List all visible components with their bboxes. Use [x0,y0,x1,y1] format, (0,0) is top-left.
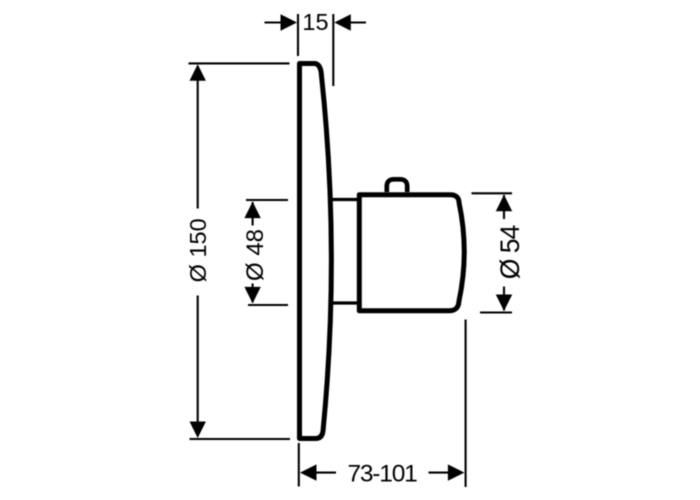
sleeve/neck top line [330,198,358,201]
dimension Ø150 : dimension line [197,66,199,209]
wall plate (escutcheon, side view) [300,64,332,439]
svg-text:Ø 150: Ø 150 [185,218,211,282]
dimension 15 : left extension line [297,14,299,56]
dimension Ø150 : top arrow [190,64,206,81]
dimension 73-101 : right arrow [448,464,465,480]
svg-text:Ø 48: Ø 48 [242,229,269,281]
dimension Ø48 : top arrow [244,202,260,219]
dimension Ø54 : top extension line [472,192,513,194]
svg-text:15: 15 [302,9,328,35]
dimension Ø150 : bottom extension line [190,438,291,440]
dimension 73-101 : right extension line [465,320,467,488]
dimension Ø48 : dimension line [252,202,254,226]
dimension Ø150 : top extension line [189,62,290,64]
sleeve/neck bottom line [330,301,358,304]
dimension 15 : left arrow [281,14,298,30]
dimension 15 : right arrow [334,14,351,30]
button on top of knob [387,179,407,192]
svg-text:Ø 54: Ø 54 [495,226,525,280]
dimension Ø54 : top arrow [496,195,512,212]
knob (handle, side view) [359,195,464,311]
dimension 15 : right extension line [332,14,334,86]
dimension Ø48 : bottom arrow [244,287,260,304]
dimension Ø54 : bottom arrow [496,295,512,312]
dimension Ø48 : top extension line [246,199,288,201]
dimension 73-101 : left arrow [300,464,317,480]
dimension Ø48 : bottom extension line [248,304,288,306]
dimension Ø54 : bottom extension line [480,311,512,313]
svg-text:73-101: 73-101 [347,461,417,488]
dimension Ø150 : bottom arrow [190,422,206,439]
dimension 73-101 : left extension line [298,443,300,487]
dimension Ø54 : dimension line [503,195,505,219]
